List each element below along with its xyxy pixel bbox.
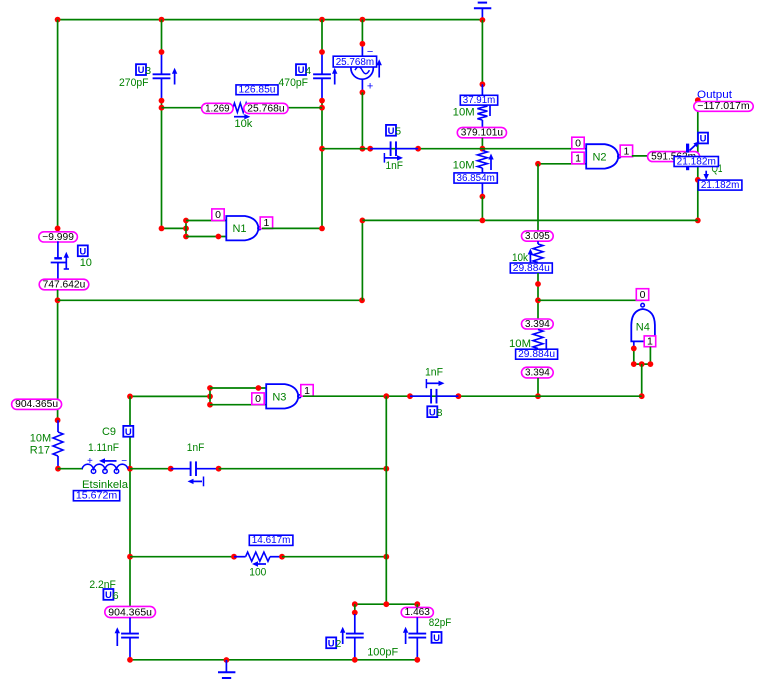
svg-text:N3: N3 — [272, 391, 286, 403]
svg-text:1: 1 — [575, 152, 581, 164]
wire inductor row left — [58, 468, 83, 470]
ammeter label 37.91m — [460, 95, 497, 106]
wire N3 feed — [127, 394, 213, 400]
voltage label 1.269 — [202, 103, 234, 114]
resistor R1 10M upper — [453, 84, 490, 127]
ammeter label 14.617m — [249, 535, 293, 546]
wire res100 row right — [282, 554, 389, 560]
capacitor C1 82pF — [403, 604, 452, 660]
voltage label 379.101u — [457, 127, 506, 138]
svg-text:36.854m: 36.854m — [457, 173, 495, 184]
svg-text:904.365u: 904.365u — [108, 607, 152, 618]
svg-text:29.884u: 29.884u — [518, 349, 555, 360]
svg-text:10: 10 — [80, 257, 92, 269]
svg-text:3.095: 3.095 — [525, 231, 550, 242]
logic state 0 N1 input — [212, 209, 224, 221]
svg-text:15.672m: 15.672m — [76, 491, 117, 502]
svg-text:4: 4 — [305, 65, 311, 77]
logic state 0 N2 input — [572, 137, 584, 149]
svg-text:8: 8 — [437, 407, 443, 419]
wire source down rail — [360, 92, 366, 151]
source current label 25.768m — [333, 56, 376, 68]
wire res100 row left — [130, 554, 237, 560]
wire mid — [480, 138, 486, 152]
svg-text:270pF: 270pF — [119, 77, 149, 89]
svg-text:Etsinkela: Etsinkela — [82, 479, 129, 491]
wire mid-left rail — [127, 396, 133, 617]
svg-text:904.365u: 904.365u — [15, 399, 58, 410]
wire chain x538 upper — [537, 164, 539, 231]
wire ground rail upper — [480, 20, 486, 87]
wire chain x538 mid — [535, 273, 541, 320]
resistor R3 10k — [512, 241, 543, 264]
svg-text:6: 6 — [113, 590, 119, 602]
svg-text:N2: N2 — [592, 151, 606, 163]
svg-text:0: 0 — [575, 137, 581, 149]
svg-text:1nF: 1nF — [425, 367, 443, 379]
ammeter label 29.884u lower — [516, 349, 558, 360]
logic state 0 N4 output — [636, 289, 648, 301]
capacitor C3 270pF — [119, 20, 177, 229]
inductor L1 — [82, 456, 128, 473]
logic state 0 N3 input — [252, 393, 264, 405]
svg-text:5: 5 — [395, 126, 401, 138]
svg-text:126.85u: 126.85u — [239, 85, 276, 96]
svg-text:1: 1 — [263, 217, 269, 229]
svg-text:N4: N4 — [636, 322, 650, 334]
voltage label -117.017m — [694, 101, 753, 112]
capacitor C6 2.2nF — [115, 618, 139, 660]
svg-text:1: 1 — [647, 335, 653, 347]
wire bottom bus — [127, 657, 420, 663]
capacitor C8 1nF — [410, 367, 458, 420]
wire right-mid rail — [385, 396, 387, 604]
svg-text:3.394: 3.394 — [525, 319, 550, 330]
svg-text:25.768u: 25.768u — [247, 103, 284, 114]
ground top — [474, 3, 491, 20]
source VS1 25.768m — [351, 20, 382, 96]
svg-text:1.269: 1.269 — [205, 103, 230, 114]
wire N2 output — [632, 155, 698, 157]
svg-text:100: 100 — [249, 567, 266, 579]
resistor 10k horizontal — [233, 103, 253, 130]
ammeter label 126.85u — [236, 85, 278, 96]
inductor L1 Etsinkela labels — [82, 426, 129, 491]
svg-text:2: 2 — [336, 638, 342, 650]
wire N4 input tie — [631, 361, 653, 367]
svg-text:0: 0 — [255, 393, 261, 405]
svg-text:U: U — [79, 246, 86, 257]
wire N3 input stub — [207, 385, 213, 408]
wire top rail — [55, 17, 486, 23]
voltage label 3.095 — [522, 231, 554, 242]
resistor R5 100 — [234, 552, 285, 578]
svg-text:1.463: 1.463 — [405, 607, 431, 618]
svg-text:R17: R17 — [30, 445, 50, 457]
svg-text:U: U — [388, 126, 395, 137]
svg-text:0: 0 — [215, 209, 221, 221]
voltage label 1.463 — [401, 607, 433, 618]
wire bottom tie — [352, 601, 420, 607]
current arrow Q1 emitter — [704, 171, 709, 180]
svg-text:25.768m: 25.768m — [336, 57, 374, 68]
nand gate N4 — [631, 303, 655, 341]
ammeter label 29.884u upper — [510, 263, 552, 274]
svg-text:−117.017m: −117.017m — [697, 101, 749, 112]
wire left rail upper — [55, 20, 61, 241]
svg-text:747.642u: 747.642u — [43, 280, 86, 291]
svg-text:10M: 10M — [453, 160, 475, 172]
svg-text:470pF: 470pF — [279, 77, 309, 89]
svg-text:10M: 10M — [453, 107, 475, 119]
svg-text:3.394: 3.394 — [525, 368, 550, 379]
svg-text:1nF: 1nF — [386, 160, 404, 172]
wire chain x538 bottom — [535, 378, 541, 399]
svg-text:−: − — [121, 456, 127, 467]
svg-text:14.617m: 14.617m — [252, 535, 291, 546]
capacitor C7 1nF — [171, 442, 222, 487]
battery V1 — [51, 241, 92, 279]
wire output rail — [695, 97, 701, 223]
nand gate N2 — [586, 144, 621, 168]
svg-text:+: + — [87, 456, 93, 467]
svg-text:C9: C9 — [102, 426, 116, 438]
svg-text:U: U — [433, 633, 440, 644]
wire N3 output bus — [303, 393, 642, 399]
logic state 1 N1 output — [260, 217, 272, 229]
nand gate N3 — [266, 384, 301, 408]
voltmeter icon C9 node — [123, 426, 133, 438]
output text — [697, 89, 732, 101]
wire N3 bottom input — [210, 404, 266, 406]
ammeter label 21.182m lower — [698, 180, 742, 191]
nand gate N1 — [226, 216, 261, 240]
wire N4 to bus — [639, 364, 645, 399]
svg-text:37.91m: 37.91m — [463, 95, 495, 106]
svg-text:U: U — [298, 65, 305, 76]
wire node row y300 left — [58, 297, 365, 303]
capacitor C6 2.2nF labels — [89, 579, 118, 602]
logic state 1 N2 output — [620, 145, 632, 157]
svg-text:U: U — [429, 407, 436, 418]
voltage label 3.394 upper — [522, 319, 554, 330]
wire N2 lower input — [535, 161, 586, 167]
wire corner x362 — [360, 218, 366, 301]
voltage label 25.768u — [244, 103, 288, 114]
svg-text:3: 3 — [145, 65, 151, 77]
resistor R4 10M — [509, 330, 546, 351]
wire N1 input stub — [183, 218, 189, 240]
svg-text:21.182m: 21.182m — [677, 156, 716, 167]
wire 10k row — [162, 107, 323, 109]
svg-text:10M: 10M — [30, 433, 51, 445]
svg-text:1: 1 — [623, 145, 629, 157]
svg-text:N1: N1 — [232, 223, 246, 235]
wire N1 output — [262, 226, 325, 232]
voltage label 591.562m — [648, 151, 700, 162]
svg-text:1: 1 — [304, 385, 310, 397]
svg-text:21.182m: 21.182m — [701, 180, 740, 191]
wire bus y220 — [362, 218, 697, 224]
voltage label 3.394 lower — [522, 367, 554, 379]
svg-text:1.11nF: 1.11nF — [88, 442, 119, 454]
wire 1nF row — [322, 146, 586, 152]
wire N1 feed — [159, 226, 189, 232]
ammeter label 21.182m upper — [674, 156, 718, 167]
voltmeter icon Q1 — [698, 133, 708, 145]
battery node label 747.642u — [39, 279, 89, 290]
logic state 1 N3 output — [301, 385, 313, 397]
svg-text:−9.999: −9.999 — [42, 232, 74, 243]
transistor Q1 — [688, 141, 723, 175]
wire N4 right input stub — [649, 347, 651, 364]
svg-text:1nF: 1nF — [187, 442, 205, 454]
wire left rail lower — [55, 290, 61, 423]
wire node row y300 right — [538, 299, 642, 301]
svg-text:100pF: 100pF — [367, 646, 398, 658]
node label 904.365u left — [12, 399, 62, 410]
svg-text:U: U — [700, 134, 707, 145]
wire inductor to cap — [130, 466, 174, 472]
ammeter label 36.854m — [454, 173, 497, 184]
battery V1 value -9.999 — [39, 232, 78, 243]
svg-text:+: + — [367, 81, 373, 93]
svg-text:U: U — [328, 638, 335, 649]
svg-text:82pF: 82pF — [429, 617, 452, 629]
svg-text:U: U — [125, 427, 132, 438]
wire N3 top input — [210, 385, 266, 391]
svg-text:Output: Output — [697, 89, 732, 101]
ground bottom — [218, 660, 235, 678]
resistor R17 10M — [30, 420, 63, 471]
svg-text:10k: 10k — [234, 118, 252, 130]
capacitor C2 100pF — [326, 604, 398, 660]
resistor R2 10M lower — [453, 151, 494, 221]
logic state 1 N2 input — [572, 152, 584, 164]
svg-text:U: U — [138, 65, 145, 76]
wire cap row right — [219, 466, 390, 472]
svg-text:0: 0 — [640, 289, 646, 301]
ammeter label 15.672m — [73, 491, 119, 502]
wire N1 top input — [186, 220, 226, 222]
svg-text:29.884u: 29.884u — [513, 263, 550, 274]
wire N4 left input stub — [631, 341, 637, 364]
wire N1 bottom input — [186, 234, 226, 240]
logic state 1 N4 input — [644, 335, 656, 347]
svg-text:379.101u: 379.101u — [461, 128, 503, 139]
svg-text:U: U — [105, 590, 112, 601]
node label 904.365u bottom — [105, 606, 156, 618]
capacitor C5 1nF — [370, 125, 418, 172]
capacitor C4 470pF — [279, 20, 338, 229]
